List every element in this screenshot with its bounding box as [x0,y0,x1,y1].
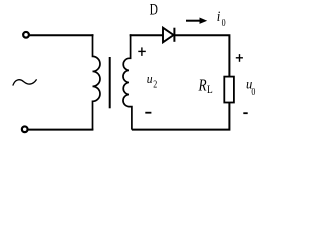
wire diode to top-right corner and down [174,35,229,76]
svg-text:0: 0 [251,86,255,97]
plus sign u2 [138,47,146,56]
svg-text:2: 2 [153,79,157,90]
transformer core [109,57,111,108]
svg-text:u: u [147,71,153,86]
svg-text:i: i [217,9,221,25]
wire top-left [29,34,93,36]
current arrow i0 head [200,18,208,24]
plus sign u0 [236,54,243,62]
transformer secondary winding [123,34,132,129]
wire bottom-left [28,129,93,131]
terminal top-left [23,32,29,38]
wire resistor bottom to bottom-right corner [132,103,230,130]
diode D cathode bar [173,28,175,42]
svg-text:0: 0 [222,17,226,28]
resistor RL body [224,77,234,103]
current arrow i0 shaft [186,20,201,22]
minus sign u0 [243,112,247,114]
diode D triangle [163,28,174,43]
svg-text:L: L [207,83,213,96]
minus sign u2 [145,112,151,114]
wire secondary top to diode [130,34,163,36]
transformer primary winding [93,34,100,129]
terminal bottom-left [22,126,28,132]
svg-text:D: D [150,2,158,19]
AC source tilde [13,79,37,85]
svg-text:R: R [198,76,208,95]
